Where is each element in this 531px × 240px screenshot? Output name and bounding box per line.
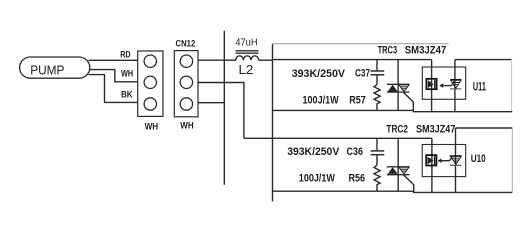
svg-text:47uH: 47uH	[235, 38, 257, 49]
svg-text:U10: U10	[471, 153, 486, 165]
svg-text:100J/1W: 100J/1W	[299, 172, 336, 184]
svg-text:RD: RD	[120, 50, 130, 60]
svg-text:BK: BK	[121, 90, 133, 100]
svg-text:100J/1W: 100J/1W	[303, 95, 340, 107]
svg-text:TRC2: TRC2	[386, 124, 408, 136]
svg-text:SM3JZ47: SM3JZ47	[405, 45, 447, 57]
svg-text:WH: WH	[180, 121, 193, 131]
svg-text:WH: WH	[121, 69, 133, 79]
svg-text:WH: WH	[145, 121, 159, 131]
svg-text:L2: L2	[239, 62, 254, 77]
svg-text:R56: R56	[349, 172, 366, 184]
svg-text:SM3JZ47: SM3JZ47	[416, 124, 455, 136]
svg-text:TRC3: TRC3	[378, 45, 398, 57]
svg-text:393K/250V: 393K/250V	[287, 146, 340, 158]
svg-text:C36: C36	[347, 146, 364, 158]
svg-text:U11: U11	[473, 82, 486, 94]
svg-text:CN12: CN12	[176, 39, 196, 50]
svg-text:PUMP: PUMP	[30, 62, 64, 77]
svg-text:C37: C37	[355, 68, 370, 80]
svg-text:R57: R57	[349, 95, 366, 107]
svg-text:393K/250V: 393K/250V	[292, 68, 346, 80]
